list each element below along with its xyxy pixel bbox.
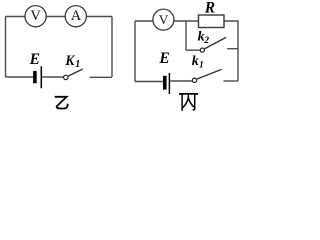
svg-text:R: R bbox=[204, 0, 215, 16]
svg-text:k: k bbox=[192, 54, 199, 69]
svg-text:1: 1 bbox=[75, 59, 80, 70]
svg-text:K: K bbox=[65, 53, 76, 69]
svg-text:E: E bbox=[158, 50, 169, 67]
svg-text:1: 1 bbox=[199, 61, 204, 71]
svg-text:2: 2 bbox=[203, 36, 209, 46]
svg-text:V: V bbox=[30, 8, 41, 24]
svg-text:V: V bbox=[159, 12, 169, 27]
svg-text:A: A bbox=[71, 8, 82, 24]
svg-text:E: E bbox=[29, 51, 40, 68]
